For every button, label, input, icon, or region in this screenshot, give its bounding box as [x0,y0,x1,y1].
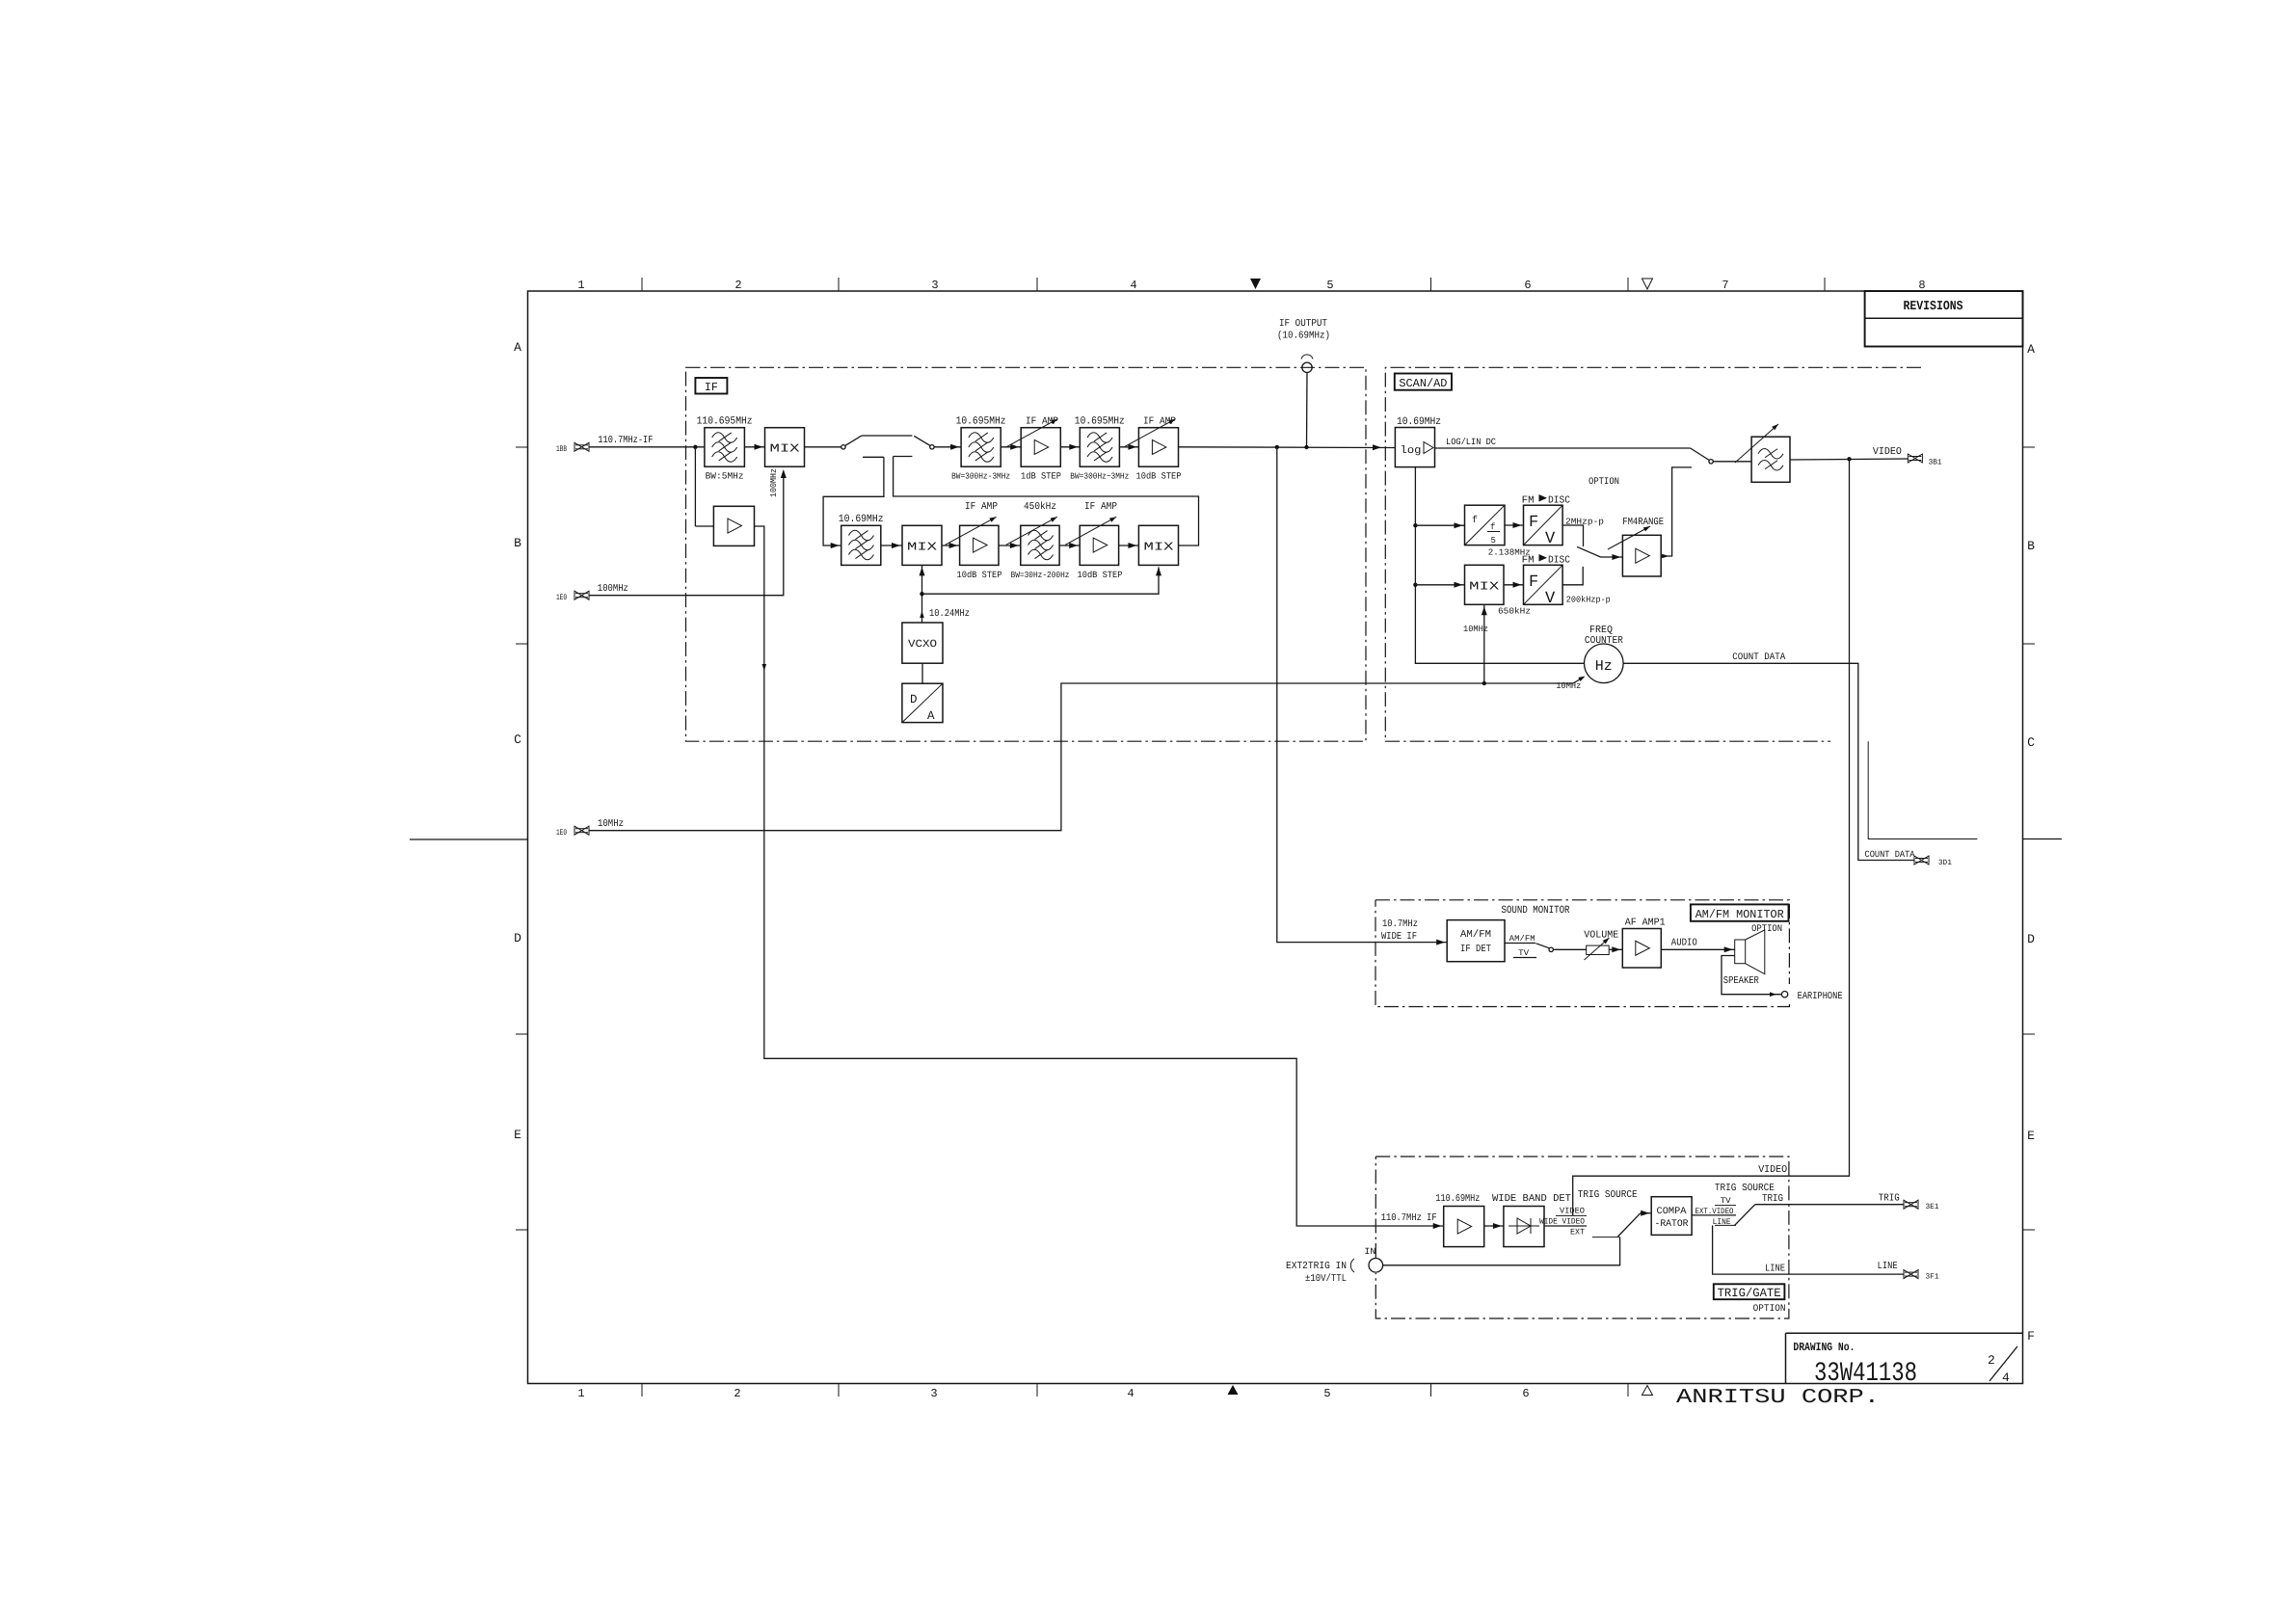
svg-text:1: 1 [577,1387,584,1400]
buffer amp A5 (100MHz dist) [694,447,696,526]
AM/FM MONITOR (sound) section dash-dot box [1375,900,1789,1007]
svg-text:5: 5 [1323,1387,1330,1400]
svg-text:A: A [514,340,521,355]
TRIG output wire [1755,1204,1904,1206]
AM/FM MONITOR label box [1691,904,1789,920]
svg-text:OPTION: OPTION [1589,477,1619,488]
row ticks right border [2023,446,2036,448]
sheet centre fold mark left [410,838,528,840]
svg-text:COUNT DATA: COUNT DATA [1732,652,1785,663]
filter F1 110.695MHz [705,428,745,467]
svg-text:10.69MHz: 10.69MHz [839,514,884,525]
wire FV2 to FM switch lower contact [1562,567,1583,585]
svg-text:AUDIO: AUDIO [1671,938,1697,949]
svg-text:8: 8 [1918,279,1925,292]
filter F5 10.69MHz [841,525,881,565]
svg-text:1E0: 1E0 [556,828,567,838]
node: branch to scan mix [1413,583,1417,587]
svg-text:REVISIONS: REVISIONS [1904,300,1963,314]
svg-text:10dB STEP: 10dB STEP [1078,570,1123,580]
divider f/5 [1465,505,1506,545]
EARPHONE connector [1781,992,1787,998]
filter F6 450kHz [1021,525,1059,565]
wire EXT trig in to EXT contact [1383,1237,1620,1265]
TRIG/GATE section dash-dot box [1375,1157,1789,1318]
LINE output wire [1713,1225,1904,1274]
svg-text:AF AMP1: AF AMP1 [1625,918,1666,929]
node: branch to sound monitor [1275,445,1279,449]
svg-text:IF DET: IF DET [1460,944,1491,955]
svg-text:DISC: DISC [1548,495,1570,507]
wire MIX4 to FM DISC2 [1504,584,1524,586]
svg-text:VIDEO: VIDEO [1873,446,1902,458]
svg-text:BW=300Hz~3MHz: BW=300Hz~3MHz [1070,472,1129,482]
wire to 455kHz chain (down-left) [823,457,884,545]
wire VCXO to D/A [921,663,923,683]
node: IF output tap [1304,445,1308,449]
FM range switch arm [1577,546,1601,557]
svg-text:EXT: EXT [1570,1228,1585,1237]
svg-text:110.695MHz: 110.695MHz [697,416,753,428]
svg-text:D: D [2027,932,2035,946]
svg-text:110.7MHz IF: 110.7MHz IF [1381,1212,1437,1224]
sound select switch [1549,947,1553,951]
svg-text:COUNTER: COUNTER [1585,635,1624,647]
svg-text:3: 3 [930,1387,937,1400]
wire F5 to MIX2 [881,545,902,546]
speaker [1735,940,1746,964]
mixer MIX2 [902,525,942,565]
svg-text:A: A [2027,342,2035,357]
svg-text:WIDE BAND DET: WIDE BAND DET [1492,1193,1571,1205]
column ticks bottom border [641,1384,643,1397]
svg-text:200kHzp-p: 200kHzp-p [1566,596,1611,605]
svg-text:VOLUME: VOLUME [1584,930,1618,942]
svg-text:F: F [1529,514,1538,532]
svg-text:1dB STEP: 1dB STEP [1021,471,1061,482]
svg-text:LOG/LIN DC: LOG/LIN DC [1446,437,1496,447]
svg-text:EXT2TRIG IN: EXT2TRIG IN [1286,1261,1347,1272]
svg-text:3F1: 3F1 [1926,1273,1939,1282]
svg-text:450kHz: 450kHz [1024,501,1056,513]
svg-text:C: C [2027,735,2035,750]
svg-text:IF AMP: IF AMP [1143,416,1176,428]
svg-text:BW=30Hz-200Hz: BW=30Hz-200Hz [1011,571,1070,580]
svg-text:ANRITSU CORP.: ANRITSU CORP. [1676,1387,1880,1409]
svg-text:FM: FM [1522,495,1535,507]
svg-text:IN: IN [1364,1246,1375,1257]
svg-text:F: F [1529,573,1538,592]
svg-text:10dB STEP: 10dB STEP [1136,471,1182,482]
WIDE BAND DET diode detector [1504,1207,1544,1247]
wire F1 to MIX1 [744,446,764,448]
D/A converter [902,683,943,722]
svg-text:E: E [2027,1129,2035,1143]
svg-text:10MHz: 10MHz [1463,625,1488,634]
svg-text:6: 6 [1522,1387,1529,1400]
AM/FM IF DET [1447,920,1505,962]
wire log out LOG/LIN DC [1435,447,1691,449]
svg-text:10.24MHz: 10.24MHz [929,608,970,620]
S1 lower contact stubs [863,456,884,458]
SCAN/AD section dash-dot border [1385,367,1921,741]
IF AMP A1 1dB STEP [1021,428,1060,467]
svg-text:7: 7 [1722,279,1728,292]
wire FV1 to FM switch upper contact [1562,525,1583,546]
svg-text:TV: TV [1518,948,1530,958]
svg-text:MIX: MIX [1469,580,1499,594]
svg-text:DRAWING No.: DRAWING No. [1793,1341,1855,1354]
revision marker triangle open top [1642,279,1653,289]
wire A5 out, long run to trig section [755,526,1444,1226]
revision marker triangle open bottom [1642,1386,1653,1396]
svg-text:Hz: Hz [1595,658,1613,675]
svg-text:-RATOR: -RATOR [1655,1219,1689,1230]
wire f/5 to FM DISC1 [1505,524,1524,526]
wire video filter out [1790,459,1908,460]
wire 100MHz to MIX1 LO [589,471,784,596]
svg-text:C: C [514,732,521,747]
wire log bottom output [1415,467,1584,664]
svg-text:IF OUTPUT: IF OUTPUT [1279,318,1327,330]
svg-text:COMPA: COMPA [1657,1207,1687,1217]
svg-text:f: f [1472,515,1478,526]
wire VIDEO to trig source [1573,459,1850,1215]
svg-text:D: D [910,693,918,706]
svg-text:10.7MHz: 10.7MHz [1382,918,1418,930]
mixer MIX3 [1138,525,1178,565]
svg-text:TRIG/GATE: TRIG/GATE [1718,1287,1781,1300]
video switch S2 [1691,448,1710,461]
wire main IF to sound monitor [1277,447,1447,943]
svg-text:100MHz: 100MHz [598,583,628,595]
wire F4 to amp A2 [1119,446,1138,448]
svg-text:3: 3 [931,279,938,292]
svg-text:f: f [1490,522,1495,532]
svg-text:AM/FM: AM/FM [1460,929,1491,941]
wire return from 455kHz chain [894,457,1199,546]
svg-text:TV: TV [1721,1196,1732,1206]
svg-text:SCAN/AD: SCAN/AD [1399,377,1447,390]
svg-text:WIDE IF: WIDE IF [1381,931,1417,943]
wire 10MHz to freq counter / scan mix [589,683,1573,831]
COMPARATOR [1651,1197,1692,1236]
trig source switch arm 2 [1735,1205,1755,1226]
wire amp to det [1484,1225,1504,1227]
svg-text:10MHz: 10MHz [1556,681,1581,691]
svg-text:F: F [2027,1329,2035,1344]
wire MIX1 to switch [805,446,841,448]
svg-text:2: 2 [734,1387,740,1400]
node: junction before 1st filter [693,445,697,449]
svg-text:COUNT DATA: COUNT DATA [1865,849,1915,860]
svg-text:LINE: LINE [1878,1261,1898,1272]
wire comparator out [1692,1214,1736,1216]
filter F4 10.695MHz [1080,428,1119,467]
det AM/FM contact [1505,943,1535,945]
svg-text:AM/FM MONITOR: AM/FM MONITOR [1695,908,1784,921]
svg-text:1E0: 1E0 [556,593,567,602]
svg-text:LINE: LINE [1765,1264,1785,1275]
AF AMP1 [1622,929,1661,969]
wire A2 to log amp [1179,446,1396,449]
svg-text:V: V [1545,530,1556,548]
wire IF output riser [1306,373,1309,448]
svg-text:FM4RANGE: FM4RANGE [1622,517,1664,528]
svg-text:A: A [927,709,935,723]
svg-text:TRIG: TRIG [1879,1193,1900,1205]
svg-text:B: B [514,536,521,550]
svg-text:5: 5 [1491,536,1496,545]
svg-text:5: 5 [1326,279,1333,292]
svg-text:1: 1 [577,279,584,292]
svg-text:4: 4 [1127,1387,1134,1400]
wire det to trig source contacts [1544,1225,1587,1227]
FM4RANGE amp [1622,535,1661,576]
svg-text:10MHz: 10MHz [598,818,624,830]
svg-text:MIX: MIX [907,541,937,554]
svg-text:V: V [1545,590,1556,608]
svg-text:6: 6 [1524,279,1531,292]
IF AMP A4 10dB STEP [1080,525,1118,565]
wire F3 to amp A1 [1001,446,1021,448]
revision marker triangle filled bottom [1228,1385,1239,1395]
svg-text:3D1: 3D1 [1938,859,1952,867]
svg-text:FM: FM [1522,555,1535,567]
filter F3 10.695MHz [961,428,1001,467]
wire VCXO to MIX2 LO [921,565,923,623]
svg-text:log: log [1401,445,1422,457]
svg-text:10.69MHz: 10.69MHz [1397,416,1441,428]
AUDIO wire [1661,948,1734,950]
revision marker triangle filled top [1250,279,1261,289]
svg-text:10dB STEP: 10dB STEP [957,570,1002,580]
svg-text:3B1: 3B1 [1929,459,1942,467]
det TV contact [1513,957,1536,959]
column ticks top border [641,278,643,291]
svg-text:D: D [514,931,521,945]
svg-text:VCXO: VCXO [908,639,937,651]
title block [1785,1333,1787,1383]
REVISIONS box [1865,291,2023,347]
svg-text:±10V/TTL: ±10V/TTL [1305,1273,1347,1285]
svg-text:DISC: DISC [1548,555,1570,567]
svg-text:4: 4 [1130,279,1136,292]
svg-text:IF AMP: IF AMP [1084,501,1117,513]
svg-text:VIDEO: VIDEO [1560,1207,1585,1216]
video filter (variable LPF) [1751,437,1790,482]
node: branch to f/5 [1413,523,1417,527]
band switch S1 (narrow/455k path) [841,445,845,449]
svg-text:IF: IF [705,381,718,394]
VOLUME control [1587,945,1610,954]
drawing frame border [528,291,2023,1384]
SCAN/AD dash-dot corner to count-data out [1868,741,1977,838]
svg-text:WIDE VIDEO: WIDE VIDEO [1539,1217,1585,1227]
svg-text:2: 2 [734,279,741,292]
wire F6 to amp A4 [1059,545,1080,546]
wire A3 to F6 [999,545,1021,546]
svg-text:1BB: 1BB [556,444,567,454]
trig source switch arm 1 [1618,1213,1641,1237]
svg-text:TRIG SOURCE: TRIG SOURCE [1578,1189,1638,1201]
svg-text:MIX: MIX [1144,541,1174,554]
svg-text:AM/FM: AM/FM [1509,934,1535,944]
svg-text:(10.69MHz): (10.69MHz) [1277,331,1330,342]
wire speaker to earphone jack [1722,956,1782,995]
svg-text:650kHz: 650kHz [1498,607,1531,617]
10MHz riser to MIX4 [1483,604,1485,683]
wire A4 to MIX3 [1119,545,1139,546]
FM DISC F/V 2 [1524,565,1563,604]
row ticks left border [516,446,528,448]
svg-text:VIDEO: VIDEO [1758,1164,1787,1176]
IF AMP A3 10dB STEP [960,525,999,565]
trig amp A6 [1444,1207,1484,1247]
wire FM4RANGE out up to video switch [1661,467,1692,556]
wire A1 to F4 [1060,446,1080,448]
svg-text:BW:5MHz: BW:5MHz [706,471,744,482]
wire MIX2 to amp A3 [942,545,960,546]
svg-text:SOUND MONITOR: SOUND MONITOR [1502,905,1570,917]
mixer MIX1 [765,428,805,467]
IF AMP A2 10dB STEP [1138,428,1178,467]
svg-text:110.7MHz-IF: 110.7MHz-IF [598,435,653,446]
FM DISC F/V 1 [1524,505,1563,545]
svg-text:100MHz: 100MHz [769,468,779,497]
node: video branch [1847,457,1851,461]
10MHz arrow into counter [1573,678,1584,684]
mixer MIX4 (650kHz) [1465,565,1505,604]
svg-text:4: 4 [2002,1370,2010,1385]
sheet centre fold mark right [2023,838,2063,840]
SCAN/AD label box [1395,374,1452,390]
svg-text:B: B [2027,539,2035,553]
svg-text:IF AMP: IF AMP [965,501,998,513]
wire LO to MIX3 [922,567,1160,594]
svg-text:10.695MHz: 10.695MHz [1075,416,1125,428]
svg-text:E: E [514,1128,521,1142]
svg-text:10.695MHz: 10.695MHz [956,416,1006,428]
svg-text:BW=300Hz-3MHz: BW=300Hz-3MHz [951,472,1010,482]
COUNT DATA wire [1623,663,1914,860]
svg-text:3E1: 3E1 [1926,1203,1939,1211]
svg-text:SPEAKER: SPEAKER [1723,975,1760,987]
svg-text:OPTION: OPTION [1753,1304,1786,1315]
svg-text:33W41138: 33W41138 [1814,1359,1917,1389]
IF section label box [695,378,727,394]
FREQ COUNTER [1585,644,1624,683]
svg-text:TRIG: TRIG [1762,1193,1783,1205]
svg-text:OPTION: OPTION [1751,924,1782,935]
svg-text:EARIPHONE: EARIPHONE [1798,991,1843,1002]
node: LO distribution [920,592,923,596]
svg-text:MIX: MIX [770,442,800,456]
VCXO local oscillator [902,623,943,663]
svg-text:EXT.VIDEO: EXT.VIDEO [1695,1207,1734,1216]
IF section dash-dot box [686,367,1367,741]
svg-text:110.69MHz: 110.69MHz [1435,1193,1480,1205]
log amp [1395,428,1434,467]
TRIG/GATE label box [1714,1284,1785,1299]
svg-text:IF AMP: IF AMP [1026,416,1058,428]
svg-text:2: 2 [1988,1353,1995,1368]
